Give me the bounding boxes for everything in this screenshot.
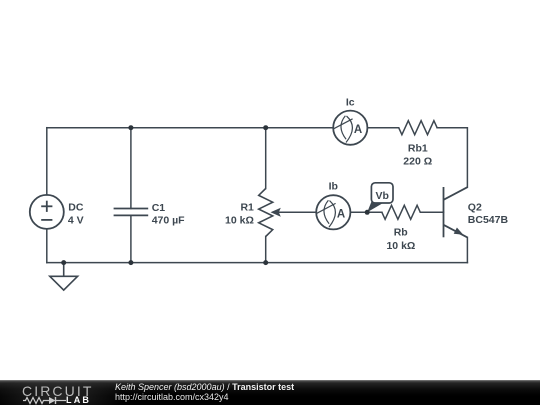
svg-text:Rb: Rb — [394, 227, 408, 239]
svg-text:A: A — [337, 208, 345, 220]
footer bar — [0, 380, 540, 405]
resistor Rb — [382, 205, 420, 219]
potentiometer R1 — [259, 189, 273, 237]
Q2 emitter arrow — [454, 228, 464, 235]
svg-text:Rb1: Rb1 — [408, 143, 428, 155]
wire top right segment ammeter to resistor — [367, 127, 398, 129]
svg-text:DC: DC — [68, 201, 84, 213]
capacitor C1 — [114, 209, 149, 216]
wire R1 bottom — [265, 237, 267, 263]
svg-text:Ic: Ic — [346, 97, 355, 109]
svg-text:10 kΩ: 10 kΩ — [225, 214, 254, 226]
transistor Q2 — [444, 187, 468, 237]
wire R1 top — [265, 128, 267, 189]
junction node bottom-capacitor — [128, 260, 133, 265]
CircuitLab logo text — [22, 385, 93, 397]
wire emitter down — [466, 237, 468, 262]
svg-text:BC547B: BC547B — [468, 214, 509, 226]
junction node ground — [61, 260, 66, 265]
svg-text:470 µF: 470 µF — [152, 214, 185, 226]
svg-text:10 kΩ: 10 kΩ — [386, 240, 415, 252]
junction node Vb — [365, 210, 370, 215]
logo squiggle and diode — [23, 396, 69, 405]
junction node top-R1 — [263, 125, 268, 130]
svg-text:R1: R1 — [240, 201, 254, 213]
R1 wiper arrow — [271, 208, 281, 217]
ground — [50, 263, 78, 291]
wire top row — [47, 127, 333, 129]
wire wiper to Ib — [279, 211, 316, 213]
resistor Rb1 — [399, 121, 437, 135]
ammeter Ib — [316, 195, 350, 229]
wire Rb1 to corner and down to collector — [437, 128, 467, 188]
voltage source DC 4V — [30, 195, 64, 229]
wire Rb to base — [420, 211, 443, 213]
wire capacitor bottom — [130, 215, 132, 262]
voltmeter probe Vb — [367, 183, 393, 213]
svg-text:A: A — [354, 124, 362, 136]
ammeter Ic — [333, 111, 367, 145]
svg-text:220 Ω: 220 Ω — [403, 156, 432, 168]
svg-text:Q2: Q2 — [468, 201, 482, 213]
wire left column upper — [46, 128, 48, 195]
wire bottom row — [47, 262, 468, 264]
junction node top-capacitor — [128, 125, 133, 130]
junction node bottom-R1 — [263, 260, 268, 265]
wire capacitor top — [130, 128, 132, 209]
wire left column lower — [46, 229, 48, 263]
svg-text:4 V: 4 V — [68, 214, 84, 226]
wire Ib to Rb — [350, 211, 382, 213]
svg-text:Ib: Ib — [329, 181, 338, 193]
svg-text:Vb: Vb — [375, 190, 388, 202]
svg-text:C1: C1 — [152, 202, 166, 214]
